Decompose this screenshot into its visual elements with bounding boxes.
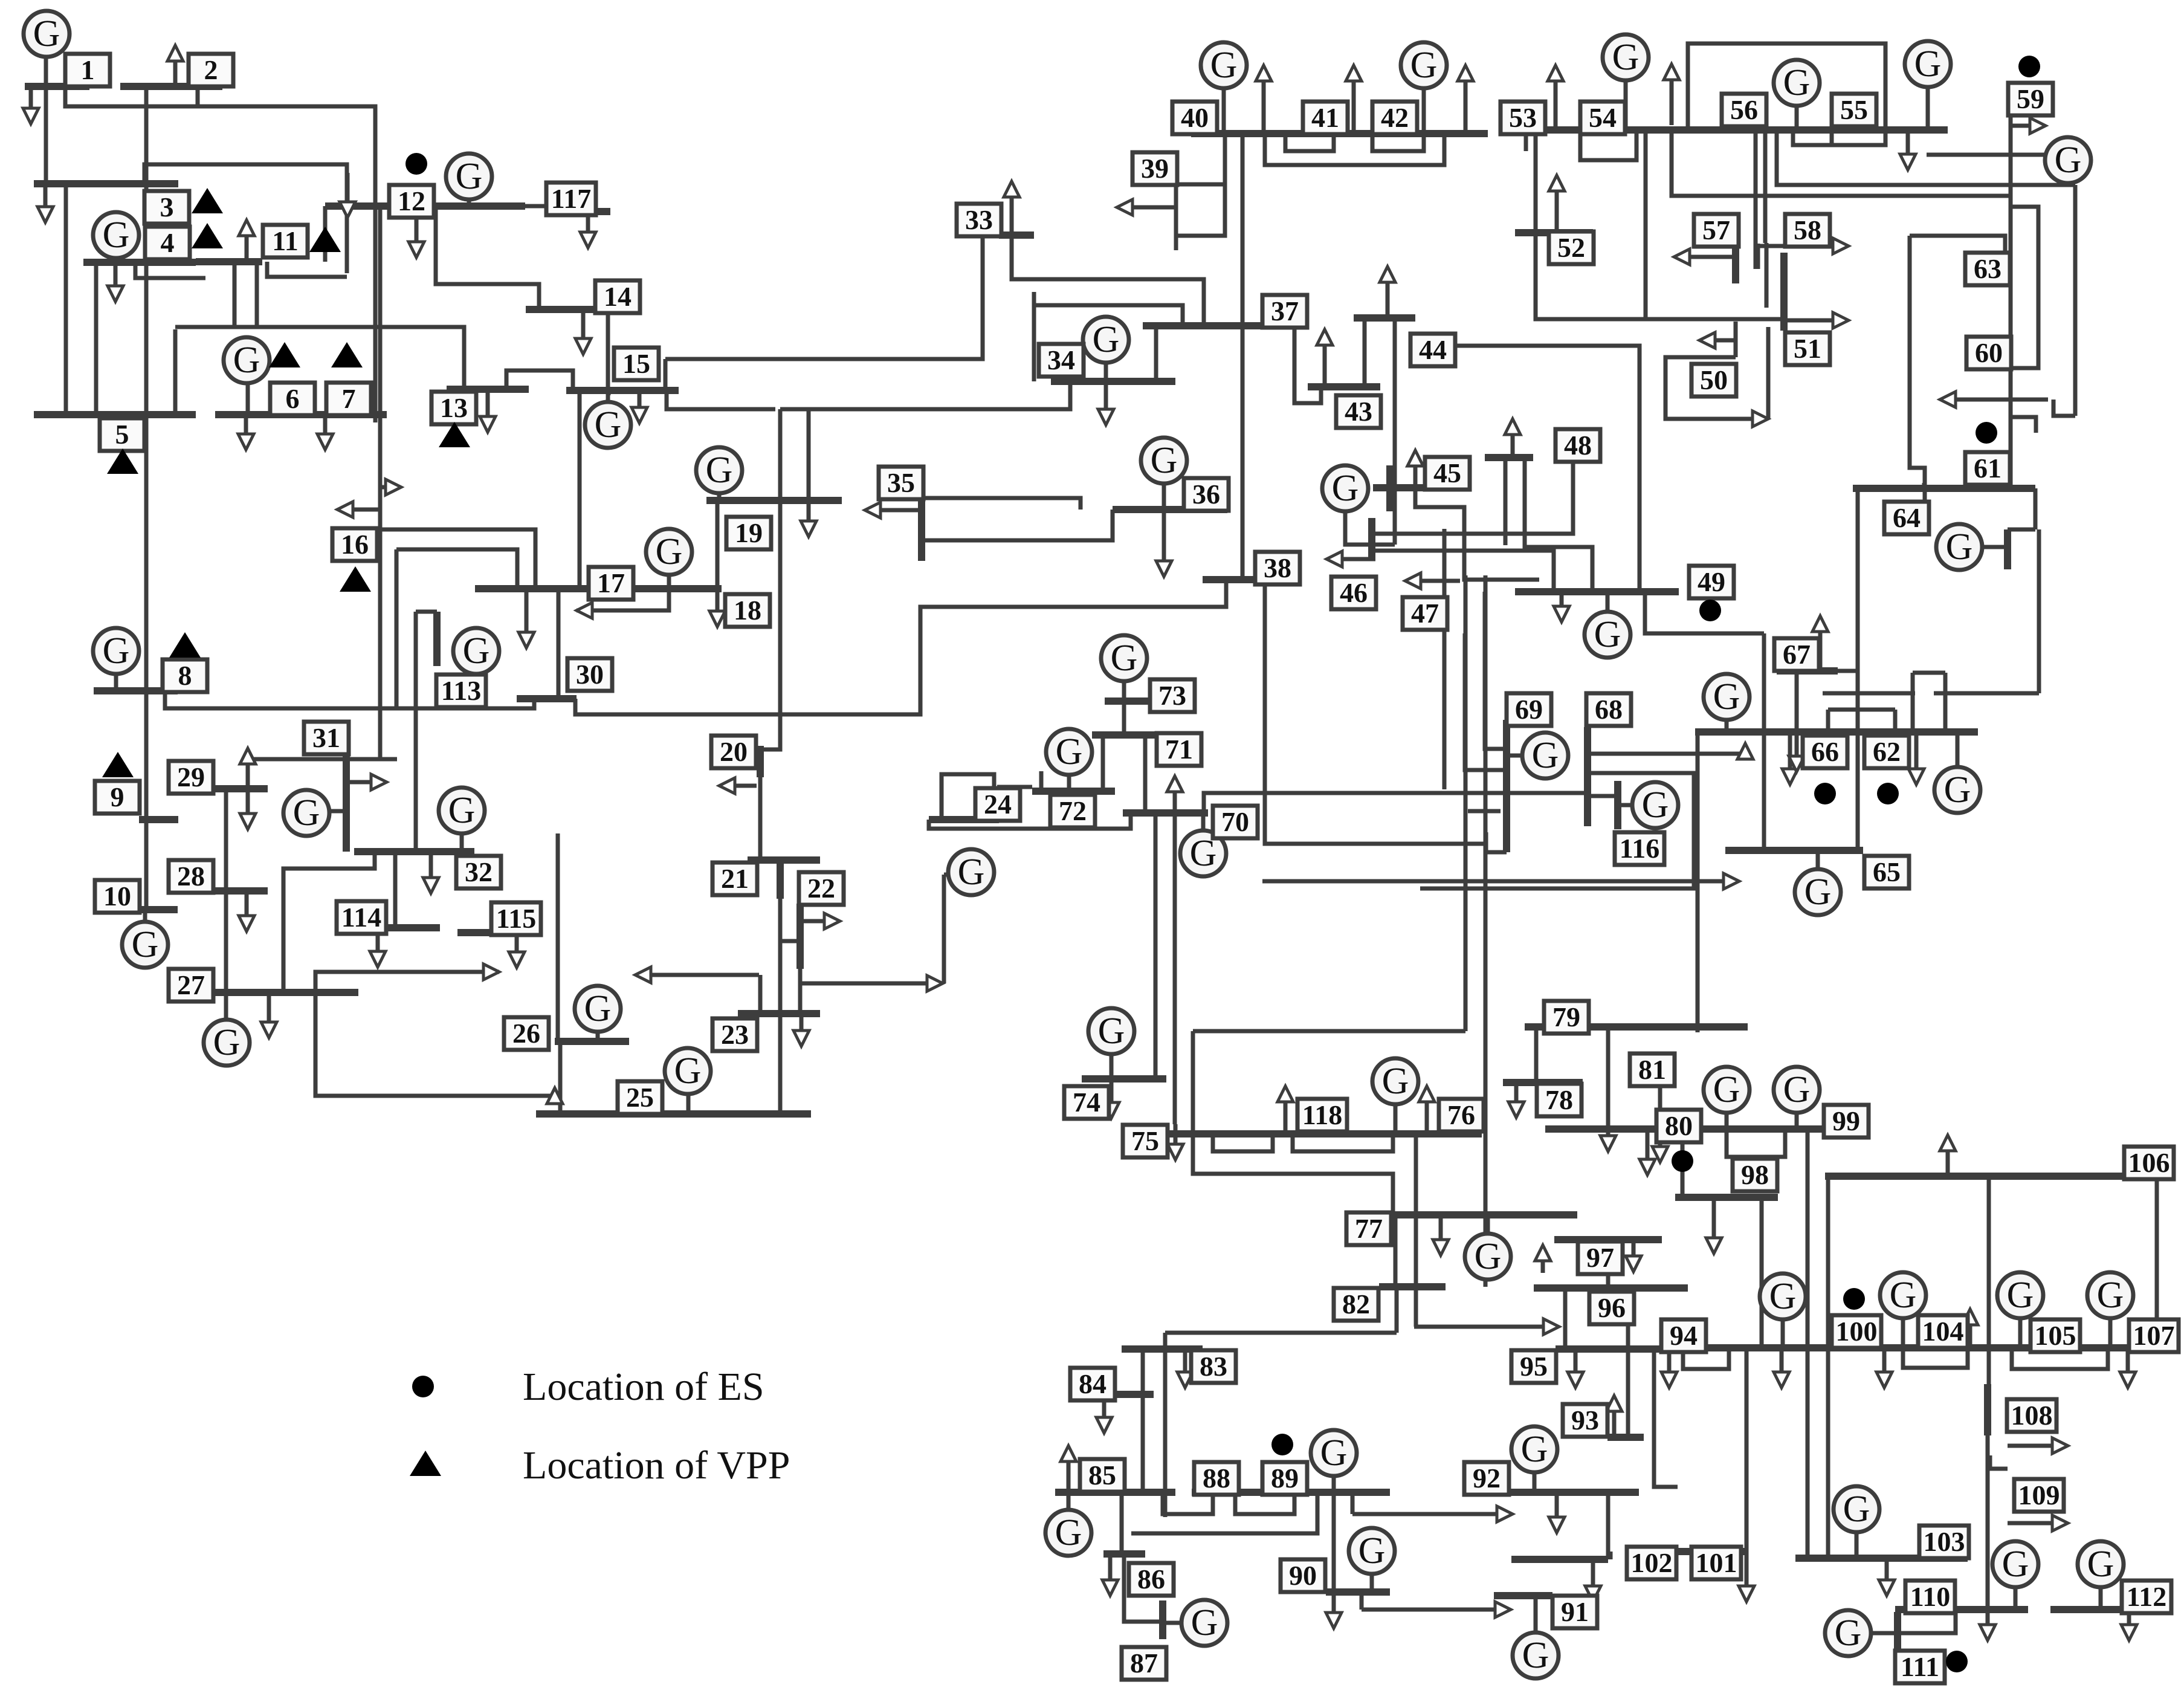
svg-text:57: 57 — [1702, 215, 1730, 245]
generator G76 — [1372, 1058, 1418, 1104]
wire — [1606, 1240, 1611, 1288]
load arrow — [1789, 671, 1804, 772]
VPP triangle — [192, 223, 223, 248]
svg-text:64: 64 — [1893, 502, 1921, 533]
bus label 39 — [1132, 152, 1177, 185]
bus bar — [1732, 244, 1739, 283]
bus label 36 — [1184, 478, 1229, 511]
bus label 108 — [2007, 1399, 2056, 1432]
bus label 24 — [975, 788, 1020, 821]
svg-text:G: G — [1713, 1069, 1740, 1110]
bus label 115 — [491, 902, 541, 935]
bus bar — [354, 848, 474, 855]
wire — [2018, 1318, 2023, 1348]
svg-text:109: 109 — [2018, 1480, 2060, 1510]
svg-text:14: 14 — [604, 281, 632, 312]
wire — [1443, 597, 1447, 789]
bus bar — [1192, 1489, 1390, 1496]
svg-text:60: 60 — [1975, 337, 2003, 368]
wire — [255, 262, 259, 327]
bus bar — [1525, 1023, 1748, 1031]
bus label 64 — [1884, 502, 1929, 534]
svg-text:71: 71 — [1165, 734, 1193, 765]
load arrow — [1407, 450, 1423, 488]
svg-text:31: 31 — [312, 722, 340, 753]
load arrow — [1740, 411, 1768, 427]
bus bar — [1515, 588, 1679, 595]
ES dot — [1271, 1434, 1293, 1455]
bus label 4 — [145, 227, 190, 259]
svg-text:G: G — [1835, 1613, 1862, 1654]
svg-text:44: 44 — [1419, 334, 1447, 365]
load arrow — [1433, 1215, 1449, 1255]
generator G59 — [2045, 137, 2091, 183]
wire — [1618, 803, 1634, 807]
load arrow — [1167, 776, 1183, 813]
wire — [1174, 184, 1178, 250]
bus label 88 — [1194, 1462, 1239, 1495]
bus bar — [918, 498, 925, 561]
generator G742 — [1088, 1008, 1134, 1054]
svg-text:30: 30 — [576, 659, 604, 690]
wire — [1213, 1134, 1273, 1151]
svg-text:67: 67 — [1783, 639, 1811, 670]
wire — [1222, 88, 1226, 134]
wire — [1124, 1554, 1163, 1622]
generator G107 — [2087, 1272, 2133, 1318]
svg-text:68: 68 — [1595, 694, 1623, 725]
bus label 110 — [1905, 1581, 1955, 1613]
bus label 25 — [618, 1081, 662, 1114]
wire — [1484, 1218, 1488, 1287]
load arrow — [1346, 65, 1362, 134]
load arrow — [2121, 1610, 2137, 1640]
svg-text:90: 90 — [1289, 1560, 1317, 1591]
wire — [165, 691, 534, 708]
wire — [1541, 1249, 1545, 1273]
wire — [393, 852, 398, 928]
bus bar — [213, 887, 268, 895]
svg-text:38: 38 — [1264, 552, 1291, 583]
load arrow — [1419, 1086, 1435, 1134]
bus label 45 — [1425, 457, 1470, 490]
svg-text:95: 95 — [1520, 1351, 1548, 1382]
svg-text:13: 13 — [440, 392, 468, 423]
load arrow — [1549, 1492, 1565, 1533]
bus label 18 — [725, 594, 770, 627]
load arrow — [1980, 1610, 1995, 1640]
svg-text:89: 89 — [1271, 1463, 1299, 1494]
load arrow — [1640, 1129, 1655, 1175]
bus label 67 — [1774, 638, 1819, 671]
wire — [1162, 484, 1166, 510]
svg-text:79: 79 — [1552, 1002, 1580, 1032]
bus bar — [1386, 465, 1394, 511]
load arrow — [1652, 1085, 1668, 1162]
wire — [1034, 305, 1183, 323]
wire — [1012, 235, 1204, 323]
svg-text:32: 32 — [465, 856, 493, 887]
wire — [1486, 832, 1507, 852]
svg-text:33: 33 — [965, 204, 993, 235]
load arrow — [239, 220, 254, 262]
svg-text:70: 70 — [1221, 806, 1249, 837]
bus label 95 — [1511, 1350, 1556, 1383]
bus label 65 — [1864, 856, 1909, 888]
generator G103 — [1833, 1486, 1879, 1532]
wire — [1986, 1435, 1990, 1610]
wire — [1067, 1492, 1071, 1510]
svg-text:G: G — [463, 630, 490, 672]
wire — [1422, 88, 1426, 134]
bus label 102 — [1627, 1547, 1676, 1579]
bus label 73 — [1150, 679, 1195, 712]
svg-text:45: 45 — [1433, 458, 1461, 488]
bus label 68 — [1586, 693, 1631, 726]
bus label 63 — [1965, 253, 2010, 285]
svg-text:G: G — [1522, 1635, 1549, 1676]
wire — [283, 852, 375, 992]
svg-text:97: 97 — [1586, 1242, 1614, 1273]
svg-text:88: 88 — [1203, 1463, 1230, 1494]
svg-text:91: 91 — [1561, 1596, 1589, 1627]
wire — [1154, 326, 1158, 381]
load arrow — [37, 184, 53, 222]
wire — [1224, 580, 1229, 607]
bus label 112 — [2122, 1581, 2171, 1613]
bus bar — [1895, 1606, 2028, 1613]
wire — [1193, 1031, 1393, 1218]
wire — [1606, 1027, 1611, 1147]
bus bar — [2004, 529, 2011, 569]
bus bar — [1143, 322, 1294, 329]
bus bar — [1659, 1548, 1746, 1555]
wire — [1855, 1532, 1859, 1558]
wire — [1420, 773, 1694, 888]
wire — [1485, 592, 1505, 749]
svg-text:83: 83 — [1200, 1351, 1227, 1382]
bus bar — [536, 1110, 811, 1118]
load arrow — [1508, 1083, 1524, 1118]
wire — [1201, 813, 1206, 830]
load arrow — [1326, 1492, 1342, 1628]
wire — [1163, 1333, 1168, 1517]
bus bar — [1308, 383, 1380, 390]
svg-text:74: 74 — [1073, 1087, 1100, 1118]
bus label 19 — [726, 517, 771, 549]
generator G25 — [665, 1048, 711, 1094]
svg-text:48: 48 — [1564, 430, 1592, 461]
wire — [246, 759, 250, 789]
bus bar — [1503, 720, 1510, 852]
wire — [1173, 813, 1177, 1124]
generator G65 — [1795, 869, 1841, 915]
load arrow — [447, 964, 499, 980]
svg-text:G: G — [213, 1022, 241, 1063]
svg-text:118: 118 — [1302, 1099, 1342, 1130]
wire — [1911, 673, 1915, 732]
wire — [196, 86, 200, 106]
load arrow — [1256, 65, 1271, 134]
wire — [1293, 1134, 1393, 1151]
svg-text:G: G — [1783, 62, 1811, 103]
wire — [44, 54, 48, 184]
svg-text:17: 17 — [597, 568, 625, 598]
svg-text:7: 7 — [342, 383, 356, 414]
svg-text:77: 77 — [1355, 1213, 1383, 1244]
load arrow — [1362, 1602, 1511, 1617]
svg-text:G: G — [1055, 1512, 1082, 1553]
wire — [378, 529, 535, 589]
generator G40 — [1201, 42, 1247, 88]
svg-text:20: 20 — [720, 736, 748, 767]
bus bar — [25, 83, 89, 90]
wire — [1683, 1348, 1729, 1369]
svg-text:116: 116 — [1620, 833, 1659, 864]
generator G42 — [1401, 42, 1447, 88]
wire — [64, 184, 68, 415]
bus bar — [343, 752, 350, 852]
wire — [1734, 322, 1738, 357]
svg-text:G: G — [595, 404, 622, 445]
bus label 14 — [595, 280, 640, 313]
wire — [1143, 735, 1148, 813]
load arrow — [635, 967, 759, 983]
bus bar — [796, 904, 804, 969]
wire — [248, 757, 397, 762]
ES dot — [1814, 783, 1836, 804]
wire — [1504, 458, 1508, 545]
generator G90 — [1349, 1528, 1395, 1574]
svg-text:G: G — [1594, 614, 1621, 655]
wire — [224, 992, 228, 1021]
generator G104 — [1880, 1272, 1926, 1318]
bus label 98 — [1733, 1159, 1777, 1191]
bus label 37 — [1262, 295, 1307, 328]
wire — [1534, 1027, 1539, 1083]
wire — [1893, 710, 1898, 732]
generator G19 — [696, 447, 742, 493]
generator G85 — [1045, 1510, 1091, 1556]
generator G111 — [1825, 1610, 1871, 1656]
wire — [1982, 545, 2008, 549]
bus label 62 — [1864, 736, 1909, 768]
svg-text:G: G — [33, 13, 60, 54]
load arrow — [2008, 1515, 2068, 1531]
bus label 44 — [1410, 334, 1455, 366]
load arrow — [1606, 1396, 1622, 1435]
load arrow — [1098, 381, 1114, 425]
wire — [1536, 134, 1782, 319]
svg-text:G: G — [1521, 1429, 1548, 1470]
bus label 13 — [431, 392, 476, 424]
wire — [1580, 134, 1636, 160]
wire — [942, 774, 994, 820]
generator G113 — [453, 628, 499, 674]
wire — [1681, 1129, 1685, 1197]
generator G77 — [1465, 1234, 1511, 1280]
svg-text:3: 3 — [160, 192, 174, 222]
svg-text:75: 75 — [1131, 1125, 1159, 1156]
wire — [1351, 1492, 1355, 1514]
wire — [1645, 592, 1764, 633]
bus label 47 — [1403, 597, 1447, 630]
svg-text:23: 23 — [721, 1019, 749, 1050]
bus label 94 — [1661, 1319, 1706, 1352]
bus bar — [777, 860, 784, 899]
wire — [716, 500, 720, 589]
bus bar — [517, 695, 577, 702]
wire — [1826, 1176, 1830, 1558]
bus label 23 — [712, 1018, 757, 1051]
svg-text:113: 113 — [441, 675, 481, 706]
svg-text:G: G — [1804, 872, 1832, 913]
load arrow — [1626, 1240, 1641, 1272]
generator G110 — [1992, 1541, 2038, 1587]
load arrow — [2008, 1438, 2068, 1454]
bus label 29 — [169, 761, 213, 794]
bus bar — [1508, 1489, 1639, 1496]
wire — [2009, 114, 2013, 488]
VPP triangle — [340, 566, 371, 592]
load arrow — [793, 1014, 809, 1046]
bus bar — [565, 208, 610, 215]
bus bar — [1825, 1173, 2168, 1180]
wire — [1777, 130, 2075, 185]
bus bar — [1354, 314, 1415, 322]
wire — [1765, 243, 1769, 308]
svg-text:41: 41 — [1311, 102, 1339, 133]
svg-text:99: 99 — [1832, 1105, 1860, 1136]
svg-text:G: G — [1475, 1236, 1502, 1277]
bus label 118 — [1297, 1099, 1347, 1131]
load arrow — [340, 173, 355, 218]
wire — [1763, 130, 1768, 243]
bus label 20 — [711, 736, 756, 768]
wire — [1394, 1215, 1398, 1287]
svg-text:40: 40 — [1181, 102, 1209, 133]
wire — [1823, 691, 1915, 696]
wire — [2073, 185, 2078, 416]
load arrow — [1876, 1348, 1892, 1388]
bus label 86 — [1129, 1563, 1174, 1596]
wire — [1122, 681, 1126, 701]
wire — [1414, 1325, 1553, 1329]
svg-text:9: 9 — [111, 782, 124, 812]
load arrow — [575, 310, 591, 354]
bus label 17 — [589, 567, 633, 600]
svg-text:G: G — [584, 988, 612, 1029]
load arrow — [577, 603, 641, 618]
wire — [1370, 1574, 1374, 1592]
wire — [1934, 691, 2039, 696]
bus label 100 — [1832, 1315, 1881, 1348]
svg-text:G: G — [674, 1050, 702, 1092]
load arrow — [1262, 873, 1739, 889]
load arrow — [240, 789, 256, 829]
svg-text:101: 101 — [1696, 1547, 1737, 1578]
wire — [929, 813, 1131, 829]
wire — [246, 383, 250, 415]
wire — [460, 833, 464, 852]
load arrow — [1774, 1348, 1789, 1388]
wire — [1806, 1131, 1810, 1558]
svg-text:6: 6 — [286, 383, 300, 414]
bus label 10 — [95, 880, 140, 913]
bus bar — [1503, 1079, 1583, 1086]
bus bar — [1113, 506, 1227, 513]
generator G89 — [1311, 1430, 1357, 1476]
bus label 106 — [2124, 1147, 2174, 1179]
bus label 71 — [1157, 733, 1201, 766]
bus label 96 — [1589, 1292, 1634, 1324]
bus bar — [999, 231, 1034, 239]
load arrow — [409, 206, 424, 257]
bus label 2 — [189, 54, 233, 86]
bus bar — [196, 258, 262, 265]
bus label 66 — [1803, 736, 1847, 768]
wire — [1141, 1349, 1145, 1394]
bus bar — [1695, 728, 1978, 736]
svg-text:G: G — [1382, 1061, 1409, 1102]
bus bar — [1795, 1555, 1968, 1562]
generator G22 — [948, 849, 994, 895]
bus bar — [1092, 731, 1155, 739]
bus bar — [1894, 1612, 1901, 1651]
wire — [1332, 1476, 1336, 1492]
bus bar — [1055, 1489, 1175, 1496]
bus bar — [526, 306, 639, 313]
svg-text:G: G — [103, 215, 130, 256]
svg-text:105: 105 — [2035, 1320, 2076, 1351]
bus bar — [757, 746, 764, 777]
wire — [267, 262, 347, 277]
bus label 3 — [144, 191, 189, 224]
wire — [114, 675, 118, 691]
bus label 116 — [1615, 832, 1664, 865]
wire — [1672, 130, 2009, 196]
wire — [1725, 721, 1729, 732]
wire — [997, 785, 1032, 789]
wire — [1534, 1596, 1538, 1633]
wire — [2099, 1587, 2103, 1610]
wire — [1468, 809, 1501, 814]
wire — [1588, 752, 1745, 756]
VPP triangle — [192, 188, 223, 213]
wire — [1910, 236, 1925, 503]
wire — [1665, 357, 1763, 419]
bus label 16 — [332, 528, 377, 561]
bus label 87 — [1122, 1647, 1166, 1680]
generator G87 — [1181, 1600, 1227, 1646]
generator G8 — [93, 628, 139, 674]
wire — [1395, 1287, 1399, 1333]
wire — [780, 381, 1070, 409]
svg-text:54: 54 — [1589, 102, 1617, 133]
wire — [1101, 735, 1105, 791]
wire — [1454, 346, 1640, 592]
wire — [1826, 710, 1830, 732]
bus label 107 — [2129, 1319, 2179, 1352]
bus label 11 — [263, 225, 308, 257]
generator G100 — [1760, 1273, 1806, 1319]
bus bar — [475, 585, 722, 592]
wire — [665, 235, 983, 359]
wire — [173, 329, 178, 415]
wire — [1163, 1621, 1180, 1625]
bus label 30 — [567, 658, 612, 691]
load arrow — [240, 748, 256, 764]
